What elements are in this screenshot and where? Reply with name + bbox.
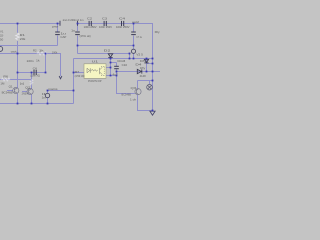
svg-text:1m: 1m	[42, 96, 47, 100]
wire Q2 base stub	[22, 91, 27, 93]
capacitor plates at x122.6	[122, 21, 124, 26]
junction dots	[17, 23, 154, 112]
voltage source V1 circle at left edge	[0, 46, 3, 51]
junction (110.5,67.5)	[110, 67, 112, 69]
svg-text:1M: 1M	[0, 81, 4, 85]
capacitor plates at x105.2	[104, 21, 106, 26]
junction (129.5,58.5)	[129, 58, 131, 60]
wire vertical x45.5	[45, 54, 47, 73]
junction (57.5,23.5)	[57, 23, 59, 25]
wire short vertical x129.5	[129, 54, 131, 59]
optocoupler LED	[87, 68, 98, 73]
capacitor plates on x57.5	[55, 32, 60, 35]
wire opto input	[74, 72, 85, 74]
capacitor plates on x116.5	[114, 66, 119, 68]
wire vertical x73.5	[73, 59, 75, 104]
junction (146.5,71.5)	[146, 71, 148, 73]
svg-text:U1: U1	[92, 60, 99, 64]
junction (129.5,53.5)	[129, 53, 131, 55]
wire rail y58.5	[74, 58, 153, 60]
svg-text:BC546B: BC546B	[2, 91, 13, 95]
junction (77.5,45.5)	[77, 45, 79, 47]
svg-text:D4: D4	[135, 62, 141, 66]
junction (31.5,72.5)	[31, 72, 33, 74]
inductor L1 end posts	[60, 21, 78, 26]
junction (152.5,110.5)	[152, 110, 154, 112]
svg-text:BC546B: BC546B	[122, 93, 132, 97]
svg-text:4148: 4148	[140, 74, 146, 78]
wire lamp stub	[149, 81, 151, 85]
svg-text:Q2: Q2	[25, 85, 30, 89]
wire vertical x17.5 upper	[17, 24, 19, 34]
svg-text:PC817M OP: PC817M OP	[88, 79, 102, 83]
svg-text:C7 1u: C7 1u	[136, 35, 142, 39]
junction (110.5,58.5)	[110, 58, 112, 60]
svg-text:Q3: Q3	[131, 86, 137, 90]
junction (146.5,58.5)	[146, 58, 148, 60]
junction (133.5,58.5)	[133, 58, 135, 60]
wire Q1 base stub	[7, 90, 13, 92]
wire vertical x57.5 upper	[57, 24, 59, 32]
svg-text:C10: C10	[122, 63, 128, 67]
wire rail y72.5 left	[18, 72, 46, 74]
junction (17.5,72.5)	[17, 72, 19, 74]
svg-text:1u: 1u	[71, 28, 75, 32]
junction (45.5,72.5)	[45, 72, 47, 74]
svg-text:C4: C4	[119, 17, 125, 21]
diode D4 series in rail y71.5	[137, 69, 142, 73]
wire x47.5 source lower	[47, 98, 49, 104]
wire Q2 emitter	[31, 95, 33, 104]
wire x47.5 source upper	[47, 91, 49, 94]
wire Q3 collector riser	[137, 81, 139, 89]
svg-text:mains: mains	[48, 87, 58, 91]
svg-text:(100n X2): (100n X2)	[30, 74, 40, 78]
resistor R1 zigzag	[16, 33, 20, 40]
wire vertical x17.5 lower	[17, 41, 19, 88]
svg-text:Rly: Rly	[155, 30, 160, 34]
junction (152.5,71.5)	[152, 71, 154, 73]
wire vertical x77.5 lower	[77, 36, 79, 54]
svg-text:20k: 20k	[20, 37, 26, 41]
junction (110.5,75.5)	[110, 75, 112, 77]
diode D3 down at x146.5	[144, 59, 148, 63]
svg-text:C3: C3	[102, 17, 107, 21]
resistor marks on x31.5	[30, 80, 33, 85]
ground symbol bottom right	[150, 111, 155, 115]
wire Q1 emitter	[17, 94, 19, 104]
svg-text:C2: C2	[87, 17, 92, 21]
wire rail y45 right segment	[78, 45, 134, 47]
svg-text:pwr: pwr	[52, 24, 58, 28]
capacitor plates on x133.5	[131, 32, 136, 35]
wire opto collector stub	[106, 67, 111, 69]
optocoupler phototransistor	[100, 67, 105, 76]
svg-text:CAP: CAP	[60, 35, 66, 39]
svg-text:(470n alt): (470n alt)	[80, 34, 91, 38]
arrow flag at bottom of x60.5	[59, 76, 62, 79]
transistor Q3	[135, 89, 141, 95]
capacitor plates at x90.2	[89, 21, 91, 26]
wire rail y79.5	[0, 79, 32, 81]
svg-text:Rly: Rly	[140, 66, 146, 70]
transistor Q1	[13, 87, 19, 93]
svg-text:100n 250V: 100n 250V	[116, 25, 130, 29]
junction (116.5,71.5)	[116, 71, 118, 73]
diode D2 down at x110.5	[108, 54, 112, 58]
capacitor plates at x35.1	[34, 70, 36, 75]
svg-text:100n 250V: 100n 250V	[84, 25, 98, 29]
junction (110.5,62.5)	[110, 62, 112, 64]
svg-text:D2: D2	[104, 48, 111, 52]
wire y80.5 collector link	[138, 80, 153, 82]
wire rail y71.5	[117, 71, 161, 73]
wire rail y53.5 right segment	[78, 53, 130, 55]
wire x133.5 mid	[133, 36, 135, 50]
svg-text:(470R 1W): (470R 1W)	[75, 74, 85, 78]
svg-text:out2: out2	[132, 20, 139, 24]
wire vertical x77.5 upper	[77, 24, 79, 32]
optocoupler U1 body	[84, 64, 106, 79]
svg-text:220n: 220n	[27, 59, 34, 63]
svg-text:4u7: 4u7	[112, 72, 118, 76]
wire opto emitter to Q3 base	[106, 76, 135, 94]
wire vertical x31.5	[31, 73, 33, 90]
source circle I1 at x47.5	[45, 93, 49, 97]
wire vertical x110.5	[110, 59, 112, 76]
svg-text:1k: 1k	[39, 48, 44, 52]
junction (73.5,90.5)	[73, 90, 75, 92]
transistor Q2	[27, 88, 33, 94]
junction (77.5,23.5)	[77, 23, 79, 25]
junction (133.5,23.5)	[133, 23, 135, 25]
junction (31.5,103.5)	[31, 103, 33, 105]
wire link y62.5	[111, 62, 117, 64]
resistor R2 zigzag in rail y53.5	[37, 52, 47, 55]
svg-text:out: out	[11, 49, 17, 53]
junction (17.5,53.5)	[17, 53, 19, 55]
wire x133.5 lower	[133, 53, 135, 58]
junction (17.5,23.5)	[17, 23, 19, 25]
svg-text:V2 5: V2 5	[136, 52, 143, 56]
wire top rail right segment and right drop	[78, 24, 153, 111]
svg-text:C6: C6	[33, 67, 38, 71]
resistor R6 zigzag in rail y79.5	[2, 78, 10, 81]
junction (116.5,75.5)	[116, 75, 118, 77]
junction (47.5,103.5)	[47, 103, 49, 105]
svg-text:[x]: [x]	[20, 81, 24, 85]
wire vertical x116.5 upper	[116, 63, 118, 67]
wire y63.5 stub	[147, 63, 153, 65]
svg-text:50: 50	[0, 37, 3, 41]
junction (73.5,72.5)	[73, 72, 75, 74]
source circle V2 at x133.5	[131, 49, 135, 53]
wire bottom rail y103.5	[0, 103, 74, 105]
svg-text:1 oh: 1 oh	[130, 97, 136, 101]
svg-text:100k: 100k	[52, 51, 58, 55]
svg-text:100n 250V: 100n 250V	[99, 25, 113, 29]
wire Q3 emitter to ground corner	[138, 95, 153, 111]
junction (47.5,90.5)	[47, 90, 49, 92]
svg-text:2N39: 2N39	[22, 92, 28, 96]
wire top rail left segment	[0, 23, 60, 25]
svg-text:.tran 0 200m 0 1m: .tran 0 200m 0 1m	[62, 18, 84, 22]
junction (17.5,103.5)	[17, 103, 19, 105]
lamp symbol right of Q3	[147, 84, 153, 90]
svg-text:1k: 1k	[36, 58, 40, 62]
junction (152.5,80.5)	[152, 80, 154, 82]
wire x133.5 upper	[133, 24, 135, 32]
wire rail y45 left segment	[0, 45, 58, 47]
junction (152.5,63.5)	[152, 63, 154, 65]
wire vertical x57.5 lower	[57, 36, 59, 46]
junction (45.5,53.5)	[45, 53, 47, 55]
wire rail y53.5 left segment with corner down at x60	[0, 54, 61, 77]
junction (152.5,58.5)	[152, 58, 154, 60]
svg-text:R2: R2	[33, 48, 37, 52]
wire x146.5 branch	[146, 59, 148, 72]
capacitor plates on x77.5	[75, 32, 80, 35]
wire vertical x116.5 mid	[116, 69, 118, 76]
svg-text:Q1: Q1	[9, 85, 13, 89]
junction (133.5,45.5)	[133, 45, 135, 47]
wire bottom loop top	[48, 90, 74, 92]
svg-text:R6: R6	[3, 74, 8, 78]
